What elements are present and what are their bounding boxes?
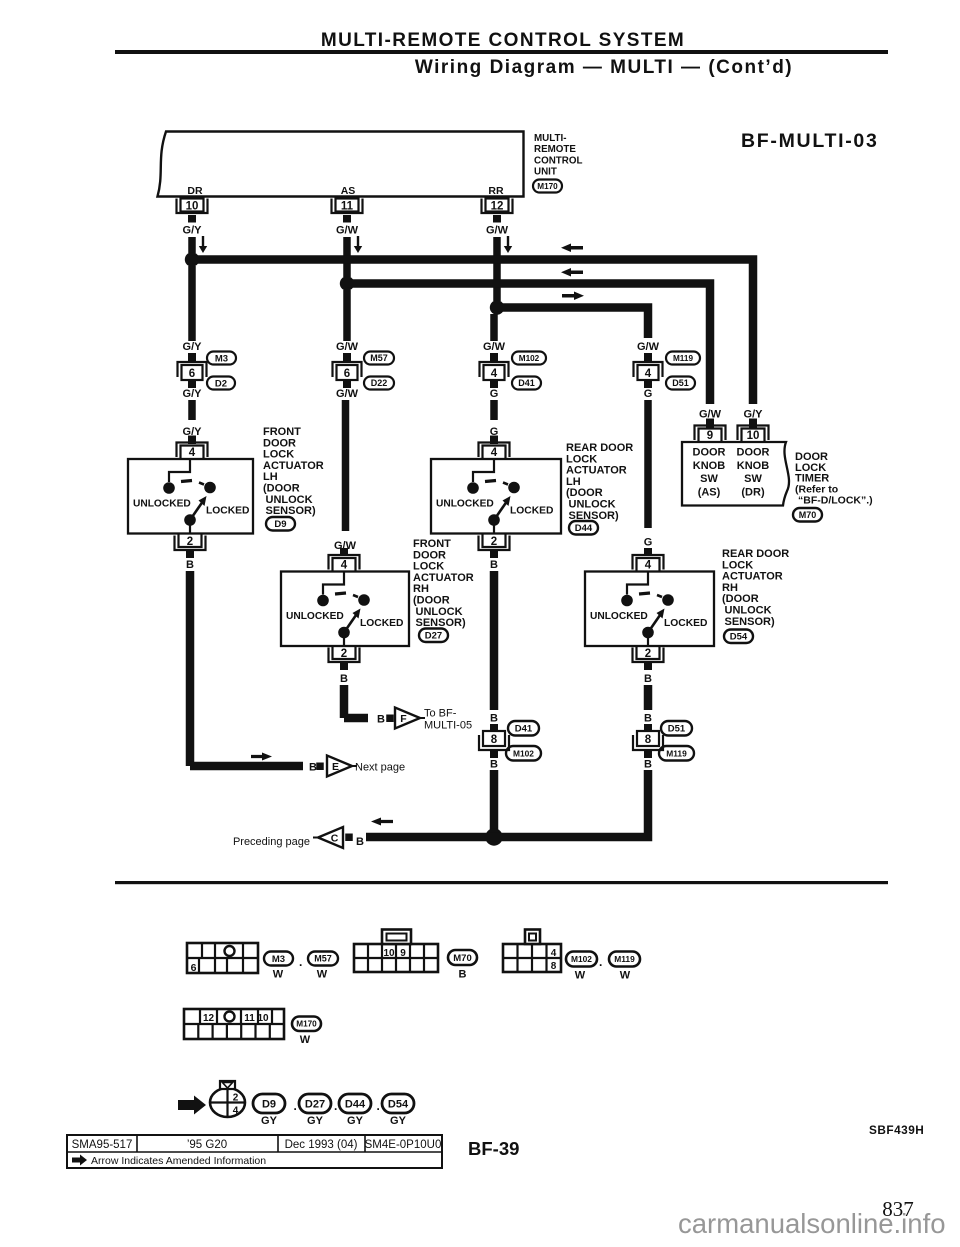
svg-text:.: . [377,1099,380,1113]
svg-text:D27: D27 [425,631,442,642]
svg-text:B: B [644,713,652,725]
svg-text:G/W: G/W [486,225,509,237]
svg-text:D51: D51 [672,378,689,388]
svg-text:RH: RH [722,582,738,594]
svg-text:G: G [644,537,653,549]
svg-text:E: E [332,761,339,773]
svg-text:4: 4 [645,368,652,380]
svg-text:.: . [599,955,602,969]
svg-text:D54: D54 [730,632,748,643]
svg-text:B: B [644,759,652,771]
svg-text:ACTUATOR: ACTUATOR [722,571,783,583]
svg-text:REAR DOOR: REAR DOOR [722,548,789,560]
svg-text:DR: DR [187,185,203,197]
svg-text:SW: SW [744,473,762,485]
svg-text:GY: GY [390,1115,407,1127]
svg-text:B: B [356,836,364,848]
svg-text:UNLOCKED: UNLOCKED [590,611,648,622]
svg-text:G/W: G/W [336,388,359,400]
svg-text:B: B [377,714,385,726]
svg-text:M102: M102 [571,954,592,964]
svg-text:10: 10 [747,430,760,442]
svg-text:SMA95-517: SMA95-517 [72,1139,133,1151]
svg-text:UNLOCK: UNLOCK [416,606,463,618]
svg-text:GY: GY [261,1115,278,1127]
svg-text:KNOB: KNOB [737,460,769,472]
svg-text:MULTI-: MULTI- [534,133,566,144]
svg-text:M102: M102 [513,748,534,758]
svg-text:G: G [644,388,653,400]
svg-text:W: W [575,970,586,982]
svg-text:B: B [490,713,498,725]
svg-text:4: 4 [491,447,498,459]
svg-text:2: 2 [187,536,193,548]
svg-text:LOCKED: LOCKED [360,618,403,629]
svg-text:4: 4 [341,560,348,572]
svg-text:UNLOCK: UNLOCK [266,494,313,506]
svg-text:RH: RH [413,583,429,595]
svg-text:.: . [299,955,302,969]
svg-text:M119: M119 [666,748,687,758]
svg-text:Dec 1993 (04): Dec 1993 (04) [285,1139,358,1151]
svg-text:GY: GY [347,1115,364,1127]
svg-text:D27: D27 [305,1098,325,1110]
svg-text:6: 6 [344,368,350,380]
svg-text:M3: M3 [272,954,285,965]
svg-text:M170: M170 [296,1020,317,1029]
svg-text:(DOOR: (DOOR [413,595,450,607]
svg-text:D22: D22 [371,378,388,388]
svg-text:W: W [317,969,328,981]
svg-text:LOCK: LOCK [722,559,753,571]
svg-text:B: B [459,969,467,981]
svg-text:10: 10 [383,948,395,959]
svg-text:(DR): (DR) [741,486,765,498]
svg-text:UNLOCKED: UNLOCKED [133,499,191,510]
svg-text:Wiring Diagram — MULTI — (Cont: Wiring Diagram — MULTI — (Cont’d) [415,57,793,78]
svg-text:4: 4 [491,368,498,380]
svg-text:LOCKED: LOCKED [664,618,707,629]
svg-text:CONTROL: CONTROL [534,155,582,166]
svg-text:10: 10 [186,201,199,213]
svg-text:D9: D9 [274,519,286,530]
svg-text:UNIT: UNIT [534,167,557,178]
svg-text:GY: GY [307,1115,324,1127]
svg-text:B: B [186,559,194,571]
svg-text:G/W: G/W [637,341,660,353]
svg-text:G/W: G/W [336,225,359,237]
svg-text:G/Y: G/Y [183,341,203,353]
svg-text:4: 4 [551,948,557,959]
svg-text:2: 2 [233,1093,239,1104]
svg-text:G/W: G/W [483,341,506,353]
svg-text:M170: M170 [537,182,558,191]
svg-text:B: B [490,759,498,771]
svg-text:’95 G20: ’95 G20 [187,1139,227,1151]
svg-text:8: 8 [551,961,557,972]
svg-text:FRONT: FRONT [263,426,301,438]
svg-text:carmanualsonline.info: carmanualsonline.info [678,1208,946,1239]
svg-text:G: G [490,388,499,400]
svg-text:LOCKED: LOCKED [510,506,553,517]
svg-text:B: B [340,673,348,685]
svg-text:LOCK: LOCK [263,449,294,461]
svg-text:MULTI-05: MULTI-05 [424,720,472,732]
svg-text:DOOR: DOOR [263,437,296,449]
svg-text:UNLOCKED: UNLOCKED [436,499,494,510]
svg-text:4: 4 [645,560,652,572]
svg-text:11: 11 [244,1013,255,1024]
svg-text:ACTUATOR: ACTUATOR [566,465,627,477]
svg-text:SENSOR): SENSOR) [266,505,316,517]
svg-text:SBF439H: SBF439H [869,1123,924,1137]
svg-text:Preceding page: Preceding page [233,836,310,848]
svg-text:KNOB: KNOB [693,460,725,472]
svg-text:C: C [331,833,339,845]
svg-text:B: B [309,762,317,774]
svg-text:D2: D2 [215,378,227,389]
svg-text:BF-MULTI-03: BF-MULTI-03 [741,130,879,152]
svg-text:12: 12 [491,201,504,213]
svg-text:9: 9 [707,430,713,442]
svg-text:G/W: G/W [336,341,359,353]
svg-text:M70: M70 [799,510,817,520]
svg-text:Arrow Indicates Amended Inform: Arrow Indicates Amended Information [91,1155,266,1167]
svg-text:D51: D51 [668,724,686,735]
svg-text:REMOTE: REMOTE [534,144,576,155]
svg-text:Next page: Next page [355,762,405,774]
svg-text:6: 6 [191,962,197,974]
svg-text:2: 2 [341,648,347,660]
svg-text:2: 2 [491,536,497,548]
svg-text:AS: AS [341,185,356,197]
svg-text:11: 11 [341,201,354,213]
svg-text:W: W [273,969,284,981]
svg-text:D44: D44 [345,1098,366,1110]
svg-text:MULTI-REMOTE CONTROL SYSTEM: MULTI-REMOTE CONTROL SYSTEM [321,30,685,51]
svg-text:DOOR: DOOR [693,447,726,459]
svg-text:M57: M57 [370,353,388,363]
svg-text:LH: LH [263,471,278,483]
svg-text:BF-39: BF-39 [468,1138,519,1159]
svg-text:D54: D54 [388,1098,409,1110]
svg-text:(DOOR: (DOOR [566,487,603,499]
svg-text:D9: D9 [262,1098,276,1110]
svg-text:8: 8 [491,734,498,746]
svg-text:.: . [294,1099,297,1113]
svg-text:DOOR: DOOR [737,447,770,459]
svg-text:4: 4 [233,1106,239,1117]
svg-text:“BF-D/LOCK”.): “BF-D/LOCK”.) [798,495,873,507]
svg-text:6: 6 [189,368,195,380]
svg-text:D44: D44 [575,523,593,534]
svg-text:W: W [300,1034,311,1046]
svg-text:9: 9 [400,948,406,959]
svg-text:SW: SW [700,473,718,485]
svg-text:UNLOCK: UNLOCK [725,605,772,617]
svg-text:ACTUATOR: ACTUATOR [263,460,324,472]
svg-text:LH: LH [566,476,581,488]
svg-text:SM4E-0P10U0: SM4E-0P10U0 [365,1139,442,1151]
svg-text:M119: M119 [614,954,635,964]
svg-text:RR: RR [488,185,504,197]
svg-text:M3: M3 [215,353,228,364]
svg-text:ACTUATOR: ACTUATOR [413,572,474,584]
svg-text:M119: M119 [673,354,693,363]
svg-text:10: 10 [257,1013,269,1024]
svg-text:4: 4 [189,447,196,459]
svg-text:W: W [620,970,631,982]
svg-text:DOOR: DOOR [413,549,446,561]
svg-text:D41: D41 [515,724,533,735]
svg-text:.: . [334,1099,337,1113]
svg-text:8: 8 [645,734,652,746]
svg-text:M70: M70 [453,953,471,964]
svg-text:To BF-: To BF- [424,708,457,720]
svg-text:LOCKED: LOCKED [206,506,249,517]
svg-text:B: B [644,673,652,685]
svg-text:(AS): (AS) [698,486,721,498]
svg-text:UNLOCK: UNLOCK [569,499,616,511]
svg-text:D41: D41 [518,378,535,388]
svg-text:REAR DOOR: REAR DOOR [566,442,633,454]
svg-text:(DOOR: (DOOR [263,483,300,495]
svg-text:F: F [400,713,407,725]
svg-text:(DOOR: (DOOR [722,593,759,605]
svg-text:M102: M102 [519,354,540,363]
svg-text:LOCK: LOCK [566,453,597,465]
svg-text:B: B [490,559,498,571]
svg-text:SENSOR): SENSOR) [725,616,775,628]
svg-text:G/Y: G/Y [183,225,203,237]
svg-text:2: 2 [645,648,651,660]
svg-text:FRONT: FRONT [413,538,451,550]
svg-text:M57: M57 [314,954,332,964]
svg-text:LOCK: LOCK [413,561,444,573]
svg-text:UNLOCKED: UNLOCKED [286,611,344,622]
svg-text:G/Y: G/Y [183,388,203,400]
svg-text:12: 12 [203,1013,215,1024]
